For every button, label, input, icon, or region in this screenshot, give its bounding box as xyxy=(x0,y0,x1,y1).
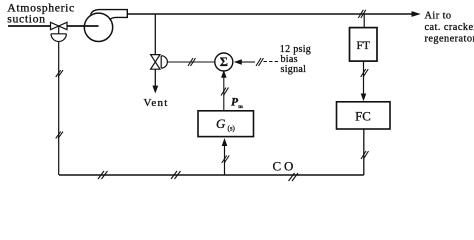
wire: dashed bias signal line xyxy=(264,61,280,63)
controller FC xyxy=(337,102,391,129)
wire: tap from discharge pipe to FT xyxy=(363,14,365,28)
hash: mark on FT-to-FC signal line xyxy=(361,69,369,77)
wire: FC output down to CO line xyxy=(363,129,365,175)
label: Air to cat. cracker regenerator xyxy=(425,10,474,44)
wire: pipe from valve V1 into blower xyxy=(67,25,99,27)
actuator diaphragm of valve V1 xyxy=(51,34,66,42)
arrow: G(s) output P into summer xyxy=(223,78,225,111)
svg-text:G: G xyxy=(216,116,226,131)
hash: pneumatic signal mark on left signal line (lower) xyxy=(56,132,63,139)
hash: pneumatic signal mark on left signal line (upper) xyxy=(56,70,63,77)
actuator diaphragm of valve V2 (on right side) xyxy=(161,56,167,68)
svg-text:(s): (s) xyxy=(228,124,236,132)
svg-text:Σ: Σ xyxy=(220,55,228,69)
hash: mark on summer-to-valve signal line xyxy=(188,58,196,66)
arrow: CO signal into G(s) xyxy=(224,145,226,175)
valve V1 suction butterfly valve xyxy=(51,22,68,34)
svg-text:FT: FT xyxy=(356,40,369,52)
hash: mark on FC output line xyxy=(361,151,369,159)
hash: mark on summer input line xyxy=(221,88,229,96)
svg-text:m: m xyxy=(238,104,243,110)
wire: suction pipe xyxy=(8,25,51,27)
hash: mark on CO line (right) xyxy=(289,173,299,181)
svg-text:regenerator: regenerator xyxy=(425,33,474,44)
wire: signal line from CO line up to valve V1 actuator xyxy=(58,42,60,175)
label: Pm valve-top pressure xyxy=(231,97,243,111)
blower B1 scroll outlet xyxy=(91,10,128,20)
svg-text:signal: signal xyxy=(281,64,307,75)
arrowhead: air to regenerator xyxy=(412,11,421,17)
hash: mark on CO line (left) xyxy=(98,171,108,179)
svg-text:cat. cracker: cat. cracker xyxy=(425,22,474,33)
arrow: FT signal to FC xyxy=(363,61,365,94)
wire: CO line (controller output bus) xyxy=(59,174,364,176)
wire: signal line from summer to vent valve actuator xyxy=(167,61,214,63)
arrow: bias signal into summer xyxy=(234,59,242,64)
svg-text:FC: FC xyxy=(355,110,371,124)
hash: mark on G(s) input line xyxy=(222,156,230,164)
hash: mark on CO line (middle) xyxy=(171,171,181,179)
hash: mark on bias signal line xyxy=(256,58,264,66)
block G(s) xyxy=(198,111,254,137)
blower B1 (centrifugal) xyxy=(84,13,112,41)
label: Atmospheric suction xyxy=(7,0,75,25)
label: 12 psig bias signal xyxy=(280,44,311,75)
hash: mark on discharge pipe near FT tap xyxy=(358,10,366,18)
wire: vent branch from discharge pipe down to vent valve xyxy=(154,14,156,55)
svg-text:Vent: Vent xyxy=(144,97,169,109)
wire: discharge pipe to regenerator xyxy=(127,13,412,15)
svg-text:Air to: Air to xyxy=(425,10,452,21)
svg-text:suction: suction xyxy=(7,11,45,25)
summer U1 (sigma) xyxy=(215,53,233,71)
arrow: vent discharge to atmosphere xyxy=(154,69,156,86)
transmitter FT xyxy=(350,28,378,62)
svg-text:CO: CO xyxy=(273,159,297,174)
valve V2 vent valve xyxy=(151,55,160,70)
